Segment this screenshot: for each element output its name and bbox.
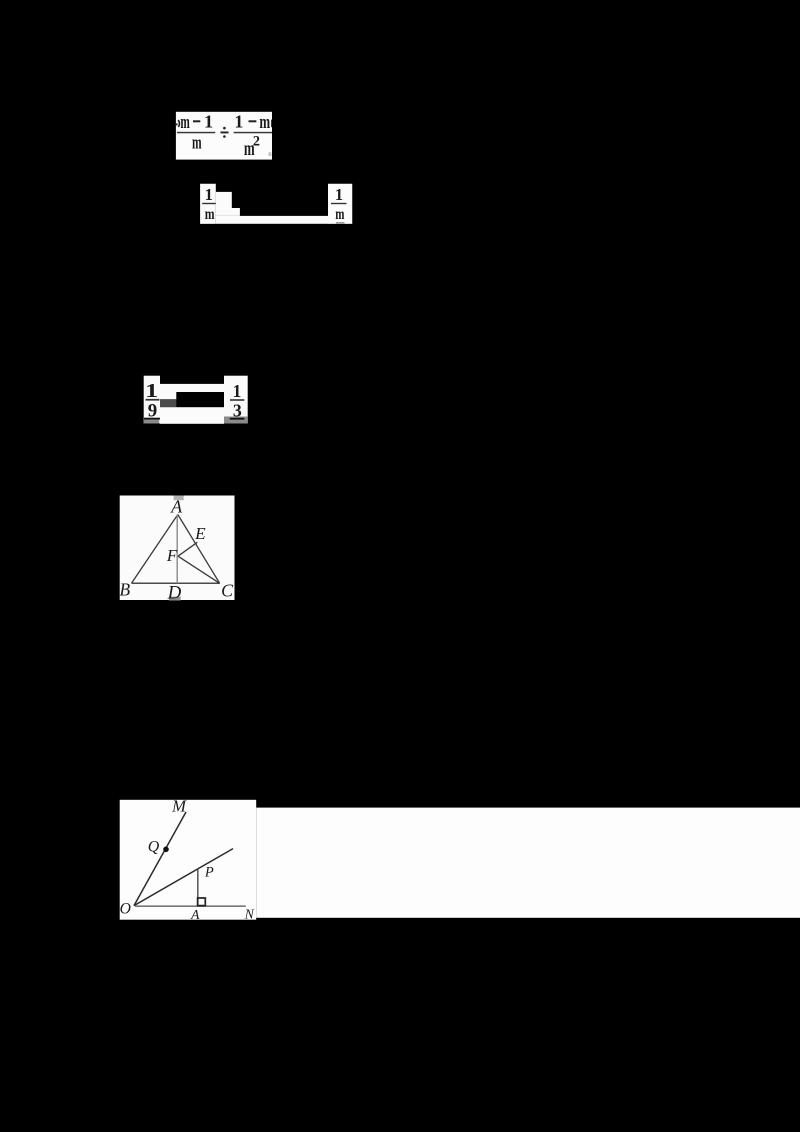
gray bar under right m: [336, 222, 345, 224]
svg-text:m: m: [205, 206, 215, 223]
gray strip under 1/3: [224, 417, 248, 424]
minus sign of first numerator: [193, 120, 200, 122]
fraction bar of left 1/m: [202, 203, 216, 204]
gray strip under 1/9: [144, 420, 160, 424]
dark gray block: [160, 399, 176, 407]
rays diagram white band left part: [120, 800, 257, 920]
horizontal ray ON: [135, 905, 246, 907]
svg-text:C: C: [221, 580, 234, 600]
cropped sliver at right edge of box 1: [270, 120, 273, 128]
ray OM: [134, 812, 186, 906]
fraction bar of first fraction: [177, 132, 215, 134]
cropped glyph sliver at left edge of box 1: [178, 120, 179, 127]
svg-text:1: 1: [234, 112, 243, 132]
minus sign of second numerator: [249, 120, 257, 122]
svg-text:B: B: [119, 579, 130, 599]
segment FE: [178, 542, 197, 556]
point Q dot: [163, 847, 169, 853]
svg-text:1: 1: [205, 185, 213, 204]
division sign upper dot: [223, 127, 226, 130]
svg-text:D: D: [167, 583, 182, 604]
fraction bar of right 1/m: [331, 203, 347, 204]
fraction bar of 1/9: [146, 399, 160, 401]
altitude AD: [176, 515, 178, 584]
side AB: [132, 515, 178, 584]
black underline under 1/3: [230, 418, 245, 420]
fraction image box 4: 1/9: [144, 376, 160, 424]
triangle diagram image box: [120, 496, 235, 601]
middle white block left: [160, 392, 176, 399]
gray tab at top of triangle box: [174, 496, 184, 501]
ray OP upper right: [134, 849, 233, 906]
division sign lower dot: [223, 135, 226, 138]
svg-text:F: F: [166, 546, 178, 565]
svg-text:A: A: [190, 907, 200, 922]
tick at left edge of box 1: [176, 123, 178, 125]
svg-text:1: 1: [233, 381, 242, 401]
svg-text:m: m: [335, 206, 344, 223]
svg-text:1: 1: [335, 185, 343, 204]
middle white top strip: [160, 384, 224, 392]
fraction bar of second fraction: [234, 132, 272, 134]
svg-text:A: A: [170, 496, 182, 516]
side AC: [178, 515, 220, 584]
svg-text:m: m: [180, 112, 190, 133]
fraction image box 2 left: 1/m: [200, 184, 216, 224]
segment FC: [178, 556, 220, 583]
perpendicular segment PA: [197, 870, 199, 907]
svg-text:O: O: [120, 900, 131, 917]
fraction image box 5: 1/3: [224, 376, 248, 424]
staircase white step B: [216, 208, 240, 216]
svg-text:Q: Q: [148, 839, 160, 856]
svg-text:2: 2: [253, 134, 260, 150]
svg-text:1: 1: [145, 381, 158, 402]
staircase white step A: [216, 192, 232, 208]
fraction image box 3 right: 1/m: [328, 184, 352, 224]
svg-text:M: M: [171, 797, 187, 816]
middle white bottom strip: [160, 407, 224, 424]
white connecting strip to right 1/m: [216, 216, 328, 224]
right angle square at A: [198, 898, 206, 906]
formula image box 1: (m-1)/m divided by (1-m)/m^2: [176, 112, 272, 160]
svg-text:1: 1: [204, 112, 213, 132]
svg-text:P: P: [204, 865, 214, 881]
fraction bar of 1/3: [230, 399, 244, 401]
division sign bar: [221, 132, 229, 134]
gray artifact mark bottom right of box 1: [268, 152, 271, 156]
svg-text:m: m: [259, 112, 270, 133]
svg-text:m: m: [192, 132, 202, 153]
gray tab at bottom of triangle box: [169, 597, 181, 601]
base BC: [132, 582, 220, 584]
svg-text:E: E: [194, 524, 206, 543]
black underline under 1/9: [144, 418, 160, 420]
svg-text:N: N: [244, 907, 255, 922]
rays diagram white band right part: [256, 808, 800, 918]
